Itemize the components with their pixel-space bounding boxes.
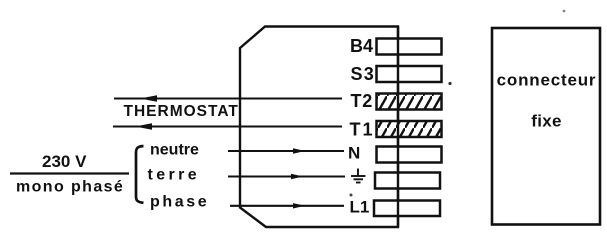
svg-text:T2: T2 bbox=[351, 91, 374, 111]
svg-text:230 V: 230 V bbox=[42, 152, 87, 171]
svg-text:connecteur: connecteur bbox=[497, 71, 597, 90]
svg-text:mono phasé: mono phasé bbox=[16, 179, 124, 196]
svg-text:T1: T1 bbox=[350, 120, 375, 140]
svg-text:neutre: neutre bbox=[150, 142, 199, 159]
svg-text:L1: L1 bbox=[350, 198, 370, 217]
svg-text:N: N bbox=[348, 144, 360, 163]
svg-text:fixe: fixe bbox=[531, 112, 562, 131]
svg-text:phase: phase bbox=[150, 194, 209, 211]
svg-text:B4: B4 bbox=[350, 36, 373, 56]
svg-text:terre: terre bbox=[148, 167, 201, 184]
svg-text:S3: S3 bbox=[351, 64, 375, 84]
svg-text:THERMOSTAT: THERMOSTAT bbox=[124, 103, 239, 120]
